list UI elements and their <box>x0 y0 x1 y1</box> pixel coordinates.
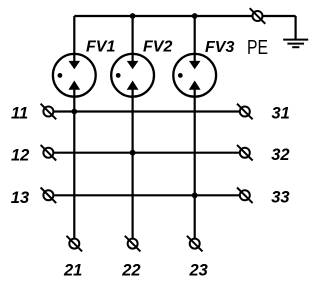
terminal 11 <box>41 104 57 120</box>
junction dot FV1-row11 <box>71 109 77 115</box>
terminal 32 <box>237 145 253 161</box>
svg-text:11: 11 <box>11 105 28 123</box>
terminal 13 <box>41 188 57 204</box>
wire column FV2 lower <box>132 89 134 238</box>
svg-text:32: 32 <box>271 146 289 164</box>
wire row 11-31 <box>48 110 244 112</box>
junction dot FV3-row13 <box>192 192 198 198</box>
wire right drop to ground <box>295 16 297 40</box>
wire column FV1 upper <box>73 16 75 62</box>
terminal 31 <box>237 104 253 120</box>
svg-text:31: 31 <box>272 104 290 122</box>
svg-text:PE: PE <box>247 36 268 59</box>
wire row 12-32 <box>48 152 244 154</box>
wire column FV2 upper <box>132 16 134 62</box>
wire row 13-33 <box>48 194 244 196</box>
terminal 23 <box>187 236 203 252</box>
svg-text:22: 22 <box>121 261 140 279</box>
ground <box>283 40 308 48</box>
wire top bus <box>74 15 295 17</box>
surge arrester FV3 <box>173 54 216 97</box>
svg-text:13: 13 <box>11 189 29 207</box>
terminal 22 <box>125 236 141 252</box>
junction dot bus-FV2 <box>130 13 136 19</box>
svg-text:21: 21 <box>63 261 82 279</box>
terminal PE <box>250 8 266 24</box>
svg-text:FV2: FV2 <box>143 39 172 56</box>
wire column FV3 lower <box>194 89 196 238</box>
terminal 33 <box>237 188 253 204</box>
terminal 21 <box>67 236 83 252</box>
junction dot bus-FV3 <box>192 13 198 19</box>
wire column FV1 lower <box>73 89 75 238</box>
surge arrester FV1 <box>53 54 96 97</box>
surge arrester FV2 <box>111 54 154 97</box>
svg-text:12: 12 <box>11 147 29 165</box>
svg-text:23: 23 <box>189 261 208 279</box>
svg-text:33: 33 <box>271 188 289 206</box>
junction dot FV2-row12 <box>130 150 136 156</box>
svg-text:FV1: FV1 <box>86 39 115 56</box>
svg-text:FV3: FV3 <box>205 39 234 56</box>
wire column FV3 upper <box>194 16 196 62</box>
terminal 12 <box>41 145 57 161</box>
